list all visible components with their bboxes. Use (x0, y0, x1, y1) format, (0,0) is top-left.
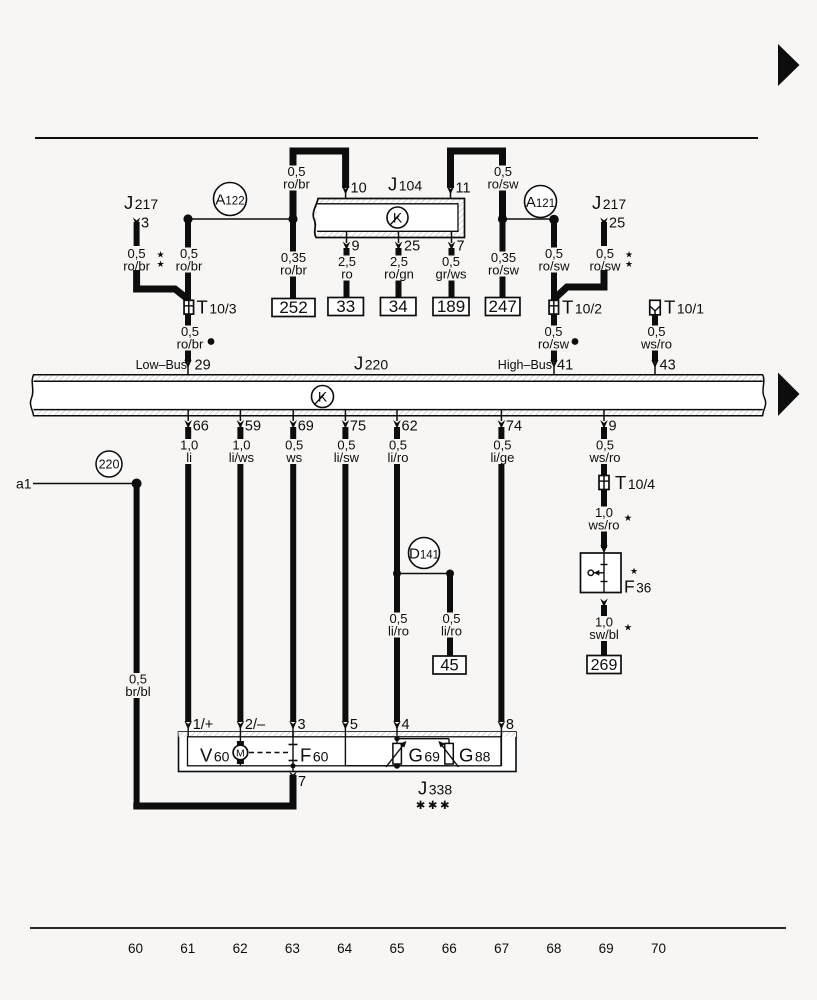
wire elbow J217-25 to T10/2 (554, 270, 604, 299)
J338 pin 3 (289, 717, 305, 737)
wire 0,5 ro/sw* from J217-25 (586, 246, 634, 274)
svg-text:ro: ro (341, 267, 353, 282)
mechanical link V60-F60 (249, 752, 288, 754)
svg-text:T10/4: T10/4 (615, 472, 655, 493)
J338 pin 5 (342, 717, 358, 737)
wire 0,5 ro/sw A121-tap to T10/2 (535, 219, 574, 301)
svg-text:K: K (393, 210, 403, 226)
svg-text:ro/sw: ro/sw (487, 177, 519, 192)
page continuation arrow (top right) (778, 44, 800, 86)
terminal 34 box (380, 297, 416, 316)
svg-text:9: 9 (352, 239, 360, 255)
current track scale 60-70 (30, 928, 786, 956)
J104 pin 7 wire 0,5 gr/ws (432, 231, 471, 298)
J217 pin 25 wire stub (600, 216, 625, 247)
bus pin 62 wire 0,5 li/ro to J338 (379, 409, 418, 722)
svg-text:li/ro: li/ro (388, 624, 409, 639)
wire 1,0 ws/ro* T10/4 to F36 (585, 490, 633, 554)
svg-text:70: 70 (651, 941, 666, 956)
node D141 junction (393, 570, 454, 578)
svg-text:ws/ro: ws/ro (587, 518, 619, 533)
wire 0,5 br/bl from a1 to J338 pin 7 (119, 484, 307, 810)
svg-text:ro/gn: ro/gn (384, 267, 414, 282)
connector T10/1 (650, 297, 705, 318)
svg-text:65: 65 (389, 941, 404, 956)
top separator rule (35, 137, 758, 139)
svg-text:li/ro: li/ro (388, 450, 409, 465)
bus pin 59 wire 1,0 li/ws to J338 (222, 409, 261, 722)
wire 0,5 ro/sw staple to J104 pin 11 (447, 151, 523, 222)
svg-text:ws: ws (285, 450, 302, 465)
svg-text:J217: J217 (124, 192, 158, 213)
J338 pin 4 (393, 717, 409, 737)
wire 0,5 ws/ro T10/1 to pin 43 (637, 315, 676, 381)
svg-text:5: 5 (350, 717, 358, 733)
svg-text:★: ★ (630, 566, 638, 576)
J338 pin 8 internal line (500, 732, 502, 766)
svg-text:60: 60 (128, 941, 143, 956)
terminal 33 box (328, 297, 364, 316)
sensor ground rail in J338 (345, 737, 449, 769)
svg-text:10: 10 (351, 181, 367, 197)
control module J338 box (179, 732, 517, 812)
svg-text:T10/1: T10/1 (664, 297, 704, 318)
node A121 tap junction (498, 214, 559, 224)
svg-text:66: 66 (442, 941, 457, 956)
idle switch F60 in J338 (289, 732, 329, 772)
connector T10/4 (599, 472, 655, 493)
connector T10/2 (549, 297, 602, 318)
diode D141 circle (409, 538, 440, 569)
svg-text:li/ge: li/ge (490, 450, 514, 465)
svg-text:ro/br: ro/br (283, 177, 310, 192)
svg-text:25: 25 (609, 216, 625, 232)
svg-text:J217: J217 (592, 192, 626, 213)
svg-text:gr/ws: gr/ws (435, 267, 467, 282)
svg-text:★: ★ (624, 623, 633, 634)
svg-text:2/–: 2/– (245, 717, 266, 733)
control unit J217 label (right) (592, 192, 626, 213)
svg-text:a1: a1 (16, 476, 32, 492)
control unit J104 box (313, 174, 464, 238)
wire 0,5 ro/sw T10/2 to High-Bus 41 (534, 314, 578, 381)
svg-text:269: 269 (591, 657, 618, 674)
svg-text:High–Bus: High–Bus (498, 358, 552, 372)
terminal 189 box (433, 297, 469, 316)
svg-text:ro/sw: ro/sw (538, 337, 570, 352)
J217 pin 3 wire stub (133, 216, 149, 247)
wire 1,0 sw/bl* F36 to terminal 269 (585, 599, 633, 657)
terminal 220 circle (96, 451, 122, 477)
svg-text:220: 220 (99, 458, 120, 472)
svg-text:75: 75 (350, 419, 366, 435)
adapter A122 circle (214, 183, 247, 216)
svg-text:9: 9 (609, 419, 617, 435)
svg-text:Low–Bus: Low–Bus (136, 358, 187, 372)
bus continuation arrow (right) (778, 373, 800, 417)
svg-text:li: li (186, 450, 192, 465)
wire elbow J217-3 to T10/3 (137, 270, 189, 300)
data bus wire J220 (30, 353, 765, 416)
svg-text:64: 64 (337, 941, 353, 956)
svg-text:41: 41 (557, 358, 573, 374)
wire a1 tap line (33, 479, 142, 489)
svg-text:4: 4 (402, 717, 410, 733)
J104 pin 25 wire 2,5 ro/gn (380, 231, 421, 298)
High-Bus label and pin 41 (498, 358, 573, 374)
terminal 45 box (433, 656, 466, 675)
terminal 247 box (485, 297, 520, 316)
svg-text:ws/ro: ws/ro (588, 450, 620, 465)
svg-text:29: 29 (195, 358, 211, 374)
svg-text:J104: J104 (388, 174, 422, 195)
svg-text:br/bl: br/bl (125, 684, 150, 699)
svg-text:G88: G88 (459, 745, 491, 766)
svg-text:★: ★ (625, 250, 633, 260)
svg-text:T10/3: T10/3 (197, 297, 237, 318)
svg-text:11: 11 (456, 181, 471, 197)
svg-text:189: 189 (437, 297, 465, 316)
svg-text:ws/ro: ws/ro (640, 337, 672, 352)
pressure switch F36 (581, 553, 652, 597)
svg-text:69: 69 (298, 419, 314, 435)
svg-text:★: ★ (625, 259, 633, 269)
svg-text:ro/sw: ro/sw (538, 259, 570, 274)
svg-text:★: ★ (624, 513, 633, 524)
wire 0,5 li/ro label (main run) (379, 611, 418, 639)
svg-text:25: 25 (404, 239, 420, 255)
wire 0,5 ro/br A122-tap to T10/3 (170, 219, 209, 301)
svg-text:F60: F60 (300, 745, 329, 766)
svg-text:66: 66 (193, 419, 209, 435)
svg-text:J338: J338 (418, 778, 452, 799)
svg-text:63: 63 (285, 941, 300, 956)
svg-text:T10/2: T10/2 (562, 297, 602, 318)
control unit J217 label (left) (124, 192, 158, 213)
svg-text:69: 69 (599, 941, 614, 956)
J104 pin 9 wire 2,5 ro to terminal 252->33 (335, 231, 360, 298)
svg-text:ro/sw: ro/sw (488, 263, 520, 278)
svg-text:ro/br: ro/br (176, 259, 203, 274)
J338 pin 1/+ (184, 717, 213, 737)
wire 0,5 ro/br staple to J104 pin 10 (277, 151, 367, 222)
svg-text:252: 252 (279, 298, 307, 317)
svg-text:33: 33 (336, 297, 355, 316)
svg-text:7: 7 (457, 239, 465, 255)
svg-text:J220: J220 (354, 353, 388, 374)
potentiometer G69 in J338 (386, 736, 440, 767)
wire 0,5 ro/br* from J217-3 (117, 246, 165, 274)
svg-text:V60: V60 (200, 745, 230, 766)
svg-text:sw/bl: sw/bl (589, 627, 619, 642)
svg-text:61: 61 (180, 941, 195, 956)
adapter A121 circle (525, 186, 557, 218)
svg-text:li/ws: li/ws (229, 450, 255, 465)
svg-text:8: 8 (506, 717, 514, 733)
svg-text:★: ★ (157, 259, 165, 269)
wire 0,5 li/ro branch to terminal 45 (432, 574, 471, 657)
bus pin 66 wire 1,0 li to J338 (177, 409, 209, 722)
terminal 252 box (272, 298, 315, 317)
J338 pin 2/- (237, 717, 266, 737)
svg-text:34: 34 (389, 297, 408, 316)
Low-Bus label and pin 29 (136, 358, 211, 374)
svg-text:247: 247 (489, 297, 517, 316)
svg-text:62: 62 (233, 941, 248, 956)
svg-text:ro/br: ro/br (280, 263, 307, 278)
svg-text:3: 3 (141, 216, 149, 232)
motor V60 in J338 (200, 737, 248, 766)
wire 0,35 ro/br to terminal 252 (274, 219, 313, 299)
terminal 269 box (587, 656, 621, 675)
svg-text:43: 43 (660, 358, 676, 374)
svg-text:59: 59 (245, 419, 261, 435)
svg-text:✱✱✱: ✱✱✱ (416, 800, 452, 812)
bus pin 9 wire 0,5 ws/ro to T10/4 (586, 409, 625, 476)
svg-text:67: 67 (494, 941, 509, 956)
svg-text:68: 68 (546, 941, 561, 956)
svg-text:★: ★ (157, 250, 165, 260)
potentiometer G88 in J338 (397, 739, 491, 767)
J338 pin 8 (498, 717, 514, 737)
node A122 tap junction (183, 214, 297, 223)
svg-text:li/ro: li/ro (441, 624, 462, 639)
bus pin 74 wire 0,5 li/ge to J338 (483, 409, 522, 722)
svg-text:62: 62 (402, 419, 418, 435)
connector T10/3 (184, 297, 237, 318)
svg-text:3: 3 (298, 717, 306, 733)
socket a1 label (16, 476, 32, 492)
svg-text:45: 45 (440, 657, 458, 675)
svg-text:1/+: 1/+ (193, 717, 214, 733)
svg-text:G69: G69 (409, 745, 441, 766)
svg-text:ro/br: ro/br (177, 337, 204, 352)
bus pin 69 wire 0,5 ws to J338 (282, 409, 314, 722)
svg-text:74: 74 (506, 419, 522, 435)
svg-text:li/sw: li/sw (334, 450, 360, 465)
wire 0,5 ro/br T10/3 to Low-Bus 29 (171, 314, 215, 381)
svg-text:K: K (318, 389, 328, 405)
bus pin 75 wire 0,5 li/sw to J338 (327, 409, 366, 722)
wire 0,35 ro/sw to terminal 247 (484, 219, 523, 298)
svg-text:7: 7 (298, 774, 306, 790)
svg-text:M: M (236, 748, 245, 760)
